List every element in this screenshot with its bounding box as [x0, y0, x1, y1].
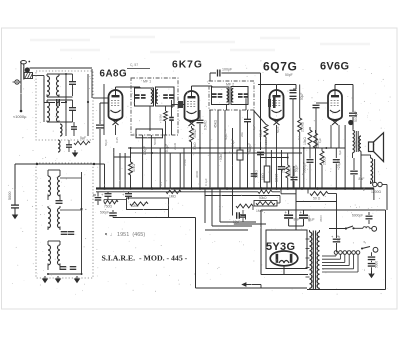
svg-text:20k: 20k	[240, 132, 244, 137]
svg-text:50pF: 50pF	[104, 139, 108, 146]
svg-text:50pF: 50pF	[285, 73, 293, 77]
svg-text:EBC3: EBC3	[275, 173, 279, 182]
svg-text:5000pF: 5000pF	[354, 111, 358, 123]
svg-text:8µF: 8µF	[359, 177, 365, 181]
svg-text:30kΩ: 30kΩ	[193, 142, 197, 150]
svg-text:350V: 350V	[307, 215, 311, 222]
svg-text:50kΩ: 50kΩ	[259, 196, 267, 200]
svg-text:50pF: 50pF	[295, 165, 299, 172]
svg-text:+: +	[300, 210, 303, 215]
svg-text:1MΩ: 1MΩ	[169, 195, 176, 199]
svg-text:♩ 1951 (465): ♩ 1951 (465)	[110, 232, 145, 238]
svg-text:5000pF: 5000pF	[352, 214, 363, 218]
svg-text:0.1µF: 0.1µF	[204, 178, 208, 186]
svg-text:350Ω: 350Ω	[354, 140, 358, 148]
svg-text:MF 2: MF 2	[226, 83, 234, 87]
svg-text:100pF: 100pF	[143, 146, 147, 155]
svg-text:0.5MΩ: 0.5MΩ	[288, 167, 292, 177]
svg-text:10kΩ: 10kΩ	[303, 137, 307, 145]
svg-text:0.1µF: 0.1µF	[231, 139, 235, 147]
svg-text:0.25: 0.25	[115, 137, 119, 143]
svg-text:50µF: 50µF	[300, 93, 304, 100]
svg-text:5µF: 5µF	[80, 136, 86, 140]
svg-text:3µF: 3µF	[252, 125, 256, 130]
svg-text:0.1µF: 0.1µF	[165, 144, 169, 152]
svg-text:1200Ω: 1200Ω	[371, 190, 382, 194]
svg-text:250Ω: 250Ω	[323, 156, 327, 165]
svg-text:50kΩ: 50kΩ	[259, 129, 263, 137]
svg-text:25kΩ: 25kΩ	[173, 142, 177, 150]
svg-text:5000: 5000	[8, 192, 12, 200]
svg-text:6K7G: 6K7G	[172, 60, 203, 71]
svg-text:25µF: 25µF	[337, 235, 341, 243]
svg-text:350V: 350V	[319, 215, 323, 222]
svg-text:500k: 500k	[264, 138, 268, 145]
svg-text:C. 57: C. 57	[130, 63, 138, 67]
svg-text:5000: 5000	[153, 138, 157, 145]
svg-text:0.5M: 0.5M	[183, 159, 187, 166]
svg-text:1µF: 1µF	[318, 138, 322, 143]
svg-text:50µF: 50µF	[224, 133, 228, 140]
svg-text:750Ω: 750Ω	[104, 205, 113, 209]
svg-text:0.1: 0.1	[159, 181, 163, 186]
svg-text:350Ω: 350Ω	[193, 129, 197, 138]
svg-text:0.5MΩ: 0.5MΩ	[204, 120, 208, 130]
svg-text:8µF: 8µF	[338, 150, 342, 155]
svg-text:8µF: 8µF	[294, 218, 300, 222]
svg-text:6A8G: 6A8G	[100, 69, 128, 80]
svg-text:+25µF: +25µF	[337, 160, 341, 170]
svg-text:0.5M: 0.5M	[159, 114, 163, 121]
svg-text:50pF: 50pF	[276, 126, 280, 133]
svg-text:100pF: 100pF	[222, 68, 233, 72]
svg-text:10µF: 10µF	[233, 220, 240, 224]
svg-text:25µF: 25µF	[282, 166, 286, 173]
svg-text:52kΩ: 52kΩ	[131, 204, 139, 208]
svg-text:45kΩ: 45kΩ	[214, 120, 218, 128]
svg-text:5000: 5000	[375, 261, 379, 268]
svg-text:100pF: 100pF	[248, 143, 252, 152]
svg-text:MF 1: MF 1	[143, 80, 151, 84]
svg-text:≈1000µ: ≈1000µ	[13, 114, 27, 119]
svg-text:250kΩ: 250kΩ	[301, 122, 305, 132]
svg-text:S.I.A.R.E. - MOD. - 445 -: S.I.A.R.E. - MOD. - 445 -	[102, 253, 188, 262]
svg-text:50 Ω: 50 Ω	[313, 197, 321, 201]
svg-text:300Ω: 300Ω	[195, 170, 199, 178]
svg-text:∿: ∿	[363, 240, 366, 245]
svg-text:6V6G: 6V6G	[320, 61, 349, 73]
svg-text:6Q7G: 6Q7G	[263, 60, 297, 74]
svg-text:0.1: 0.1	[297, 135, 301, 140]
svg-text:30kΩ: 30kΩ	[132, 164, 136, 172]
svg-text:50kΩ: 50kΩ	[219, 152, 223, 160]
svg-text:5000pF: 5000pF	[303, 162, 307, 173]
svg-text:500pF: 500pF	[100, 211, 109, 215]
svg-text:•: •	[130, 189, 134, 190]
